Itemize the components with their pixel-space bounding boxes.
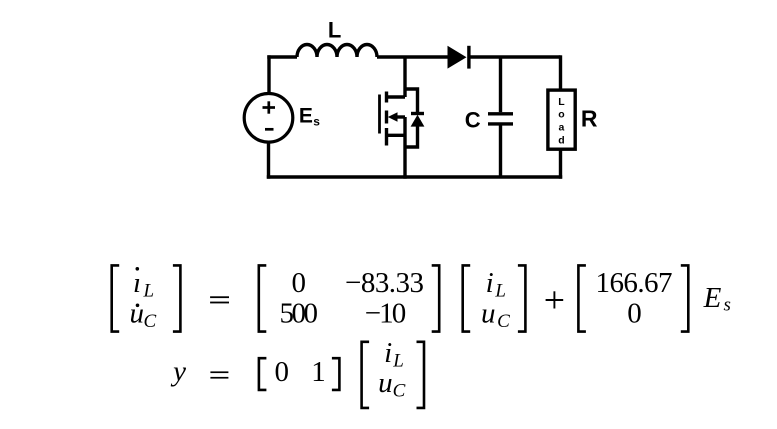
svg-text:L: L <box>558 96 565 108</box>
wire right rail upper <box>559 55 562 90</box>
body diode triangle <box>411 115 425 127</box>
wire body-diode branch top <box>405 89 418 113</box>
MOSFET channel middle bar <box>385 111 388 124</box>
eq1 open bracket state vector <box>463 265 471 331</box>
eq1 close bracket state-derivative vector <box>173 265 181 331</box>
svg-text:0: 0 <box>627 297 642 329</box>
source plus sign <box>263 101 276 113</box>
eq1 open bracket B vector <box>578 265 586 331</box>
MOSFET channel bottom bar <box>385 128 388 146</box>
label Load vertical text <box>558 96 565 146</box>
MOSFET gate bar <box>378 95 381 134</box>
svg-text:i: i <box>486 267 494 299</box>
svg-text:C: C <box>143 311 156 332</box>
svg-text:C: C <box>393 381 406 402</box>
eq1 open bracket A matrix <box>259 265 267 331</box>
wire bottom <box>267 175 562 178</box>
svg-text:0: 0 <box>291 267 306 299</box>
load resistor box <box>548 90 575 149</box>
inductor L <box>297 45 377 58</box>
svg-text:u: u <box>481 297 496 329</box>
MOSFET arrow head <box>388 112 398 122</box>
MOSFET channel top bar <box>385 92 388 103</box>
svg-text:d: d <box>558 135 564 147</box>
svg-text:C: C <box>497 311 510 332</box>
svg-text:y: y <box>170 356 186 388</box>
svg-text:L: L <box>494 281 506 302</box>
svg-text:R: R <box>581 106 598 132</box>
svg-text:i: i <box>384 337 392 369</box>
svg-text:ı: ı <box>133 267 141 299</box>
eq2 open bracket state vector <box>362 342 370 408</box>
svg-text:1: 1 <box>311 356 326 388</box>
svg-text:500: 500 <box>279 297 318 329</box>
wire MOSFET source vertical <box>403 117 406 179</box>
svg-text:u: u <box>378 367 393 399</box>
eq2 close bracket state vector <box>417 342 425 408</box>
body diode cathode bar <box>411 112 424 115</box>
svg-text:o: o <box>558 109 564 121</box>
wire capacitor upper <box>499 57 502 112</box>
wire left rail upper <box>267 55 270 94</box>
wire capacitor lower <box>499 126 502 178</box>
svg-text:E: E <box>299 104 313 127</box>
svg-text:s: s <box>723 295 730 316</box>
svg-text:L: L <box>392 351 404 372</box>
wire inductor to diode <box>377 55 448 58</box>
svg-text:C: C <box>465 107 481 132</box>
svg-text:s: s <box>313 114 320 128</box>
eq2 equals sign <box>210 371 228 373</box>
eq1 equals sign <box>210 296 229 298</box>
eq2 open bracket C matrix <box>259 358 267 390</box>
source minus sign <box>265 128 274 131</box>
svg-text:0: 0 <box>275 356 290 388</box>
wire MOSFET drain horizontal <box>387 95 406 98</box>
svg-text:166.67: 166.67 <box>596 267 673 299</box>
wire MOSFET drain vertical <box>403 57 406 97</box>
MOSFET arrow shaft <box>397 115 406 118</box>
svg-text:u: u <box>129 297 144 329</box>
eq1 close bracket B vector <box>681 265 689 331</box>
MOSFET source horizontal <box>387 134 406 137</box>
svg-text:−10: −10 <box>365 297 407 329</box>
svg-text:a: a <box>558 122 564 134</box>
svg-text:−83.33: −83.33 <box>345 267 424 299</box>
capacitor C top plate <box>488 112 513 115</box>
eq1 close bracket A matrix <box>432 265 440 331</box>
source Es circle <box>244 94 293 143</box>
diode D triangle <box>448 46 467 69</box>
wire left rail lower <box>267 142 270 179</box>
capacitor C bottom plate <box>488 122 513 125</box>
svg-text:L: L <box>143 281 155 302</box>
wire top left horizontal <box>267 55 297 58</box>
svg-text:E: E <box>703 282 722 314</box>
eq1 plus sign <box>546 291 564 308</box>
wire body-diode branch bottom <box>405 125 418 147</box>
wire diode to top-right corner <box>471 55 561 58</box>
eq1 close bracket state vector <box>518 265 526 331</box>
eq1 open bracket state-derivative vector <box>112 265 120 331</box>
svg-text:L: L <box>328 18 341 43</box>
eq2 close bracket C matrix <box>332 358 340 390</box>
wire right rail lower <box>559 149 562 179</box>
diode D cathode bar <box>467 46 470 69</box>
